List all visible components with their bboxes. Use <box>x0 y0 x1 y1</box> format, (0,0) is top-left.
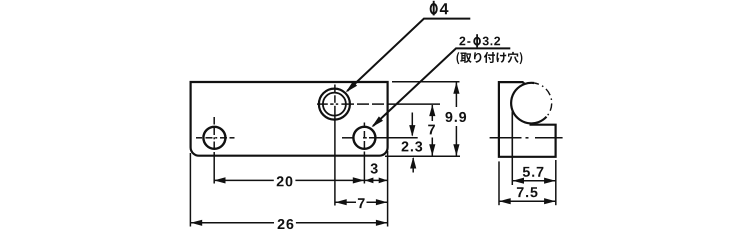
dimension 20 line <box>214 179 274 181</box>
label phi4: digit 4 <box>440 3 449 14</box>
mounting hole left <box>203 127 225 149</box>
center line: phi4 vertical, extends down toward dim 7 bottom <box>334 85 336 93</box>
label 2-phi3.2: phi symbol <box>474 38 480 45</box>
dimension text 7 (vertical) <box>428 125 435 135</box>
dimension 9.9 vertical line <box>455 83 457 108</box>
dimension text 7 (bottom) <box>358 198 365 208</box>
dimension text 5.7 <box>523 167 544 177</box>
extension line: side view plate face for dim 5.7 <box>511 157 513 185</box>
side view center line horizontal <box>490 137 522 139</box>
extension line: plate top right for dim 9.9 <box>392 81 460 83</box>
dimension text 3 <box>371 163 378 173</box>
center line: right hole horizontal, extends right for dim 2.3 <box>342 137 354 139</box>
plate outline (front view) <box>191 82 388 156</box>
dimension 3 line with back-to-back arrows <box>364 179 387 181</box>
leader arrowhead phi4 <box>346 81 357 92</box>
mounting hole right <box>353 127 375 149</box>
dimension 7 vertical line <box>431 105 433 121</box>
center line: phi4 horizontal, extends right toward dim 7 <box>317 103 328 105</box>
dimension 7 bottom line <box>335 201 356 203</box>
dimension 5.7 line <box>512 180 556 182</box>
leader line 2-phi3.2 <box>373 48 510 126</box>
dimension text 20 <box>277 176 293 186</box>
dimension text 7.5 <box>517 187 538 197</box>
extension line: plate bottom right for dims 2.3 / 7 / 9.9 <box>385 155 460 157</box>
label 2-phi3.2 text <box>459 37 470 46</box>
dimension text 2.3 <box>402 141 423 151</box>
boss hole phi4 outer circle <box>319 89 350 120</box>
leader arrowhead 2-phi3.2 <box>372 116 383 127</box>
extension line: side view block right face for dims 5.7 / 7.5 <box>555 160 557 205</box>
boss hole phi4 inner circle <box>323 93 346 116</box>
leader line phi4 <box>347 19 470 91</box>
side view: joint line between plate face and block <box>511 112 513 157</box>
dimension 2.3 arrows (outside) <box>411 113 413 136</box>
extension line: plate right edge for dims 3 / 7 / 26 <box>387 151 389 227</box>
dimension text 9.9 <box>446 112 467 122</box>
side view outline: plate edge-on with step block <box>499 82 556 157</box>
center line: right hole vertical / extension for dims 20 and 3 <box>363 123 365 129</box>
dimension 26 line <box>191 222 275 224</box>
label phi4: phi symbol <box>431 4 437 14</box>
dimension 7.5 line <box>499 200 556 202</box>
side view: top stub at right end of top edge <box>522 82 524 85</box>
dimension text 26 <box>278 219 294 229</box>
extension line: plate left edge for dim 26 <box>189 153 191 227</box>
center line: left hole vertical / extension for dim 20 <box>213 117 215 125</box>
side view roller circle: phantom dash-dot arc (right) <box>534 83 552 117</box>
center line: left hole horizontal <box>196 137 202 139</box>
extension line: side view left face for dim 7.5 <box>498 161 500 205</box>
side view roller circle: solid arc (left/bottom) <box>511 83 546 124</box>
label (mounting holes) japanese text paths <box>457 52 523 64</box>
